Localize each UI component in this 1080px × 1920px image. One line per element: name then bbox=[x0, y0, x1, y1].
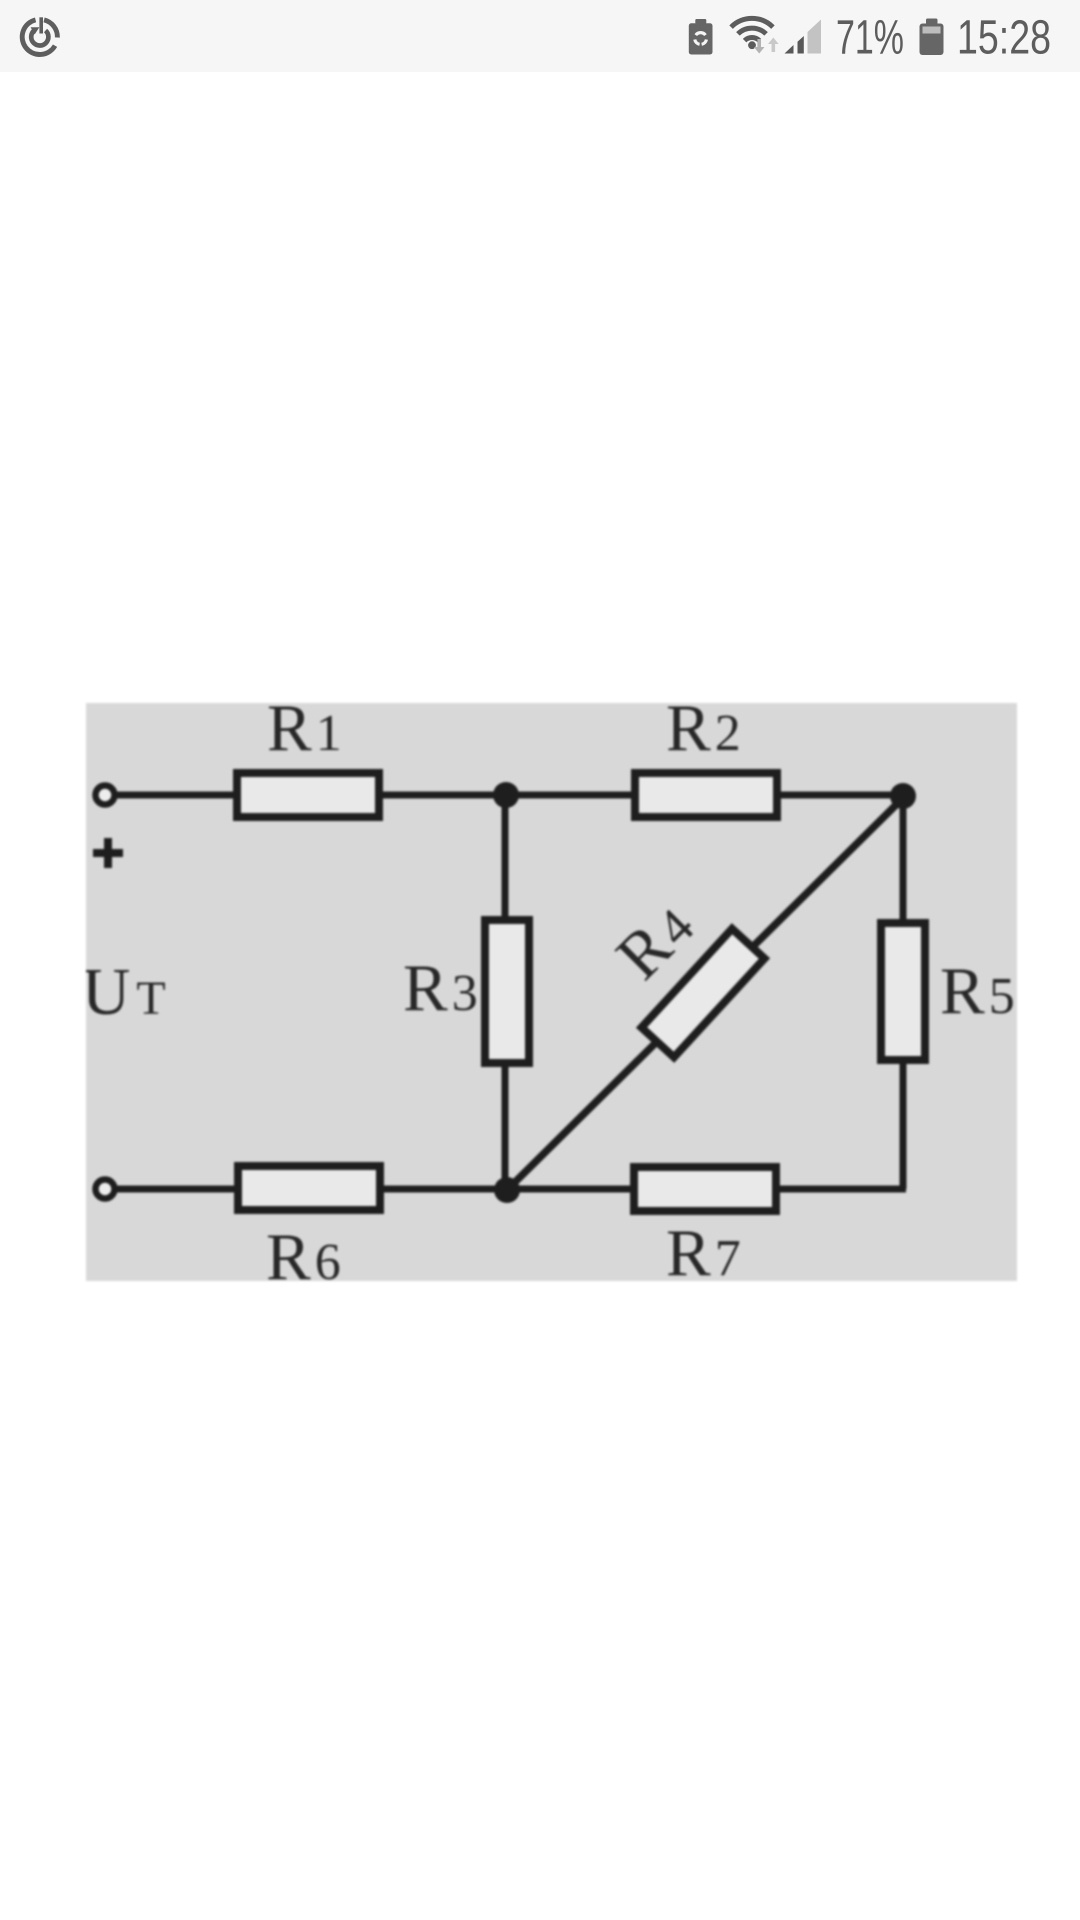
circuit schematic image bbox=[86, 703, 1017, 1281]
restart/power-circle status icon bbox=[22, 17, 57, 54]
resistor R4 (diagonal) bbox=[642, 929, 765, 1058]
resistor R3 bbox=[485, 920, 529, 1063]
resistor R6 bbox=[238, 1166, 380, 1210]
wire bottom right corner to R7 bbox=[780, 1186, 906, 1193]
wifi down arrow bbox=[754, 39, 765, 54]
node A (top middle junction) bbox=[493, 782, 519, 808]
resistor R5 bbox=[881, 923, 925, 1060]
resistor R1 bbox=[237, 773, 379, 817]
terminal - (bottom left) bbox=[96, 1180, 115, 1199]
svg-text:R1: R1 bbox=[267, 703, 342, 765]
label R4 (rotated) bbox=[602, 888, 707, 993]
diagonal wire node C to node B bbox=[507, 798, 903, 1190]
wire node A down to R3 bbox=[502, 795, 509, 920]
signal bars bbox=[785, 45, 794, 54]
svg-text:15:28: 15:28 bbox=[957, 12, 1051, 65]
battery icon bbox=[920, 19, 944, 56]
wire R7 to node C bbox=[506, 1186, 634, 1193]
wire R3 to node C bbox=[502, 1063, 509, 1190]
node B (top right junction) bbox=[890, 783, 916, 809]
resistor R2 bbox=[635, 773, 777, 817]
wifi icon bbox=[731, 18, 773, 40]
terminal + (top left) bbox=[96, 786, 115, 805]
wire node C to R6 bbox=[384, 1186, 507, 1193]
wire node A to R2 bbox=[506, 792, 635, 799]
plus sign bbox=[93, 838, 123, 868]
node C (bottom middle junction) bbox=[494, 1177, 520, 1203]
wifi up arrow bbox=[768, 38, 779, 53]
wire R2 to node B bbox=[777, 792, 903, 799]
wire R5 to bottom right corner bbox=[900, 1060, 907, 1189]
wire R6 to bottom terminal bbox=[115, 1186, 238, 1193]
resistor R7 bbox=[634, 1167, 776, 1211]
svg-text:71%: 71% bbox=[836, 12, 904, 65]
svg-text:R2: R2 bbox=[666, 703, 741, 765]
wire terminal to R1 bbox=[115, 792, 233, 799]
battery-recycle notification icon bbox=[689, 19, 713, 55]
wire node B down to R5 bbox=[900, 796, 907, 919]
wire R1 to node A bbox=[383, 792, 505, 799]
